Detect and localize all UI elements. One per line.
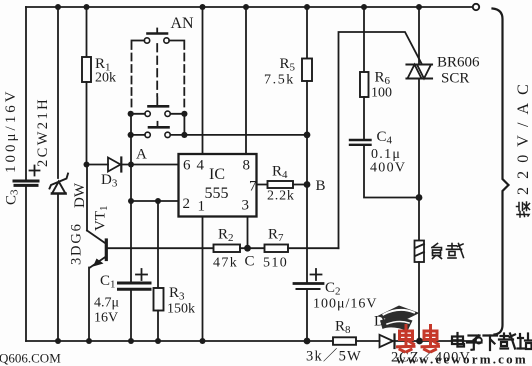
svg-text:R7: R7 [268,227,284,245]
wire R5 top lead [306,7,308,59]
watermark glyph 电 [452,333,464,347]
svg-text:100: 100 [371,86,392,101]
label 4.7u [94,296,119,311]
node dot top rail / R1 branch [84,4,90,10]
svg-text:C4: C4 [377,129,393,147]
svg-text:www.eeworm.com: www.eeworm.com [396,352,528,366]
pin label 1 [198,199,206,215]
wire R6 to C4 [363,97,365,139]
node dot bottom rail / C1 [128,338,134,344]
label 150k [167,302,195,317]
label 100u/16V (rotated) [3,88,19,173]
label SCR [441,71,469,87]
svg-text:BR606: BR606 [437,55,480,71]
node dot top rail / pin4 [200,4,206,10]
label C3 plus sign [30,166,40,176]
pin label 3 [242,198,250,214]
node dot D3 anode junction [84,162,90,168]
label 555 [205,185,229,202]
wire R7 to gate riser [288,247,339,249]
wire R1 top lead [86,7,88,57]
label 47k [213,256,238,271]
label jie 接 (rotated) [517,202,530,217]
label C4 [377,129,393,147]
triac BR606 SCR [407,65,433,79]
node dot pin2 row / R3 branch [155,198,161,204]
watermark text Q606.COM [0,351,61,366]
watermark glyph 子 [467,336,482,350]
svg-text:150k: 150k [167,302,195,317]
transistor VT1 emitter with arrow [90,257,106,268]
wire node A vertical down to C1 [130,165,132,282]
svg-text:C2: C2 [325,280,341,298]
node dot C4 / SCR column [416,194,423,201]
pin label 2 [183,196,191,212]
wire DW branch lower [57,194,59,342]
label BR606 [437,55,480,71]
node C dot [244,245,251,252]
label D [374,314,385,330]
label fuzai (load) glyph 载 [447,244,464,259]
resistor R4 [268,181,294,188]
wire row3 to R5 bottom node [184,134,307,136]
resistor R6 [360,72,369,97]
wire R3 bottom lead [157,311,159,342]
node dot top rail / DW branch [55,4,61,10]
wire switch top leads [132,40,185,42]
svg-text:R3: R3 [169,285,185,303]
label 100 [371,86,392,101]
wire D3 anode [87,164,109,166]
pin label 8 [243,158,251,174]
label 100u/16V (C2) [313,297,378,312]
svg-text:SCR: SCR [441,71,469,87]
node bottom AC terminal (open circle) [476,338,482,344]
op-amp/timer IC 555 box U1 [179,154,257,217]
resistor R8 [333,337,356,345]
label 16V [94,311,118,326]
wire IC pin2 row [131,200,179,202]
node dot bottom rail / DW [55,338,61,344]
wire switch left column [130,114,132,165]
node top AC terminal (open circle) [473,4,479,10]
label C1 plus sign [136,269,147,280]
wire top supply rail [26,6,473,8]
node dot top rail / pin8 [243,4,249,10]
capacitor C4 plates [350,140,371,145]
svg-text:AN: AN [171,15,195,32]
svg-text:4.7μ: 4.7μ [94,296,119,311]
label C2 plus sign [311,269,322,280]
label 7.5k [264,73,295,88]
brace 220V/AC [493,9,509,335]
wire C2 bottom to rail [306,290,308,341]
resistor R3 [154,288,164,311]
diode D3 [108,158,121,172]
label fuzai (load) glyph 负 [432,244,442,259]
label R6 [375,70,391,88]
node dot top rail / R5 [304,4,310,10]
svg-text:B: B [316,178,326,194]
switch AN top contacts [144,38,169,43]
svg-text:VT1: VT1 [93,206,111,232]
node B dot [304,181,311,188]
svg-text:1: 1 [198,199,206,215]
label 2CW21H (rotated) [35,97,51,167]
svg-text:16V: 16V [94,311,118,326]
watermark text eeworm.com (grey) [396,352,528,366]
wire pin1 vertical to bottom rail [202,217,204,342]
pin label 4 [197,158,205,174]
label AN [171,15,195,32]
switch AN top button bar [148,29,168,34]
wire C1 bottom to rail [130,290,132,341]
wire SCR cathode down [418,79,420,241]
svg-text:C3: C3 [4,189,21,205]
svg-text:2CW21H: 2CW21H [35,97,51,167]
svg-text:400V: 400V [370,161,406,176]
watermark bug glyph 虫 #1 (red) [398,326,415,352]
wire R4 to node B [293,184,307,186]
label R7 [268,227,284,245]
svg-text:8: 8 [243,158,251,174]
svg-text:Q606.COM: Q606.COM [0,351,61,366]
svg-text:47k: 47k [213,256,238,271]
label node A [136,147,147,163]
wire R1 bottom lead to node [86,82,88,165]
svg-text:510: 510 [263,256,288,271]
resistor R2 [214,245,241,253]
switch row2 contacts [145,111,170,116]
wire bottom rail left of R8 [26,340,333,342]
load (fuzai) box [415,241,425,263]
label 2.2k [267,189,295,204]
capacitor C2 plates [294,284,323,290]
label 3DG6 (rotated) [69,222,85,265]
transistor VT1 collector wire [87,165,105,244]
node dot bottom rail / emitter [86,338,92,344]
switch row3 button bar [149,122,169,128]
wire R5 bottom lead [306,81,308,135]
svg-text:2.2k: 2.2k [267,189,295,204]
label R1 [95,56,111,74]
label 20k [95,71,116,86]
watermark glyph 载 [499,334,515,349]
switch row2 button bar [149,98,169,107]
wire R3 top lead [157,201,159,288]
wire base row to R2 [106,247,213,249]
label DW (rotated) [72,182,88,208]
svg-text:D3: D3 [101,172,118,190]
wire left rail upper (C3 branch) [25,7,27,179]
capacitor C1 plates [119,283,151,289]
svg-text:100μ/16V: 100μ/16V [3,88,19,173]
svg-text:555: 555 [205,185,229,202]
svg-text:100μ/16V: 100μ/16V [313,297,378,312]
label 400V [370,161,406,176]
wire SCR anode [418,7,420,65]
wire node B column down to C2 [306,135,308,282]
svg-text:R5: R5 [280,56,296,74]
wire load bottom to rail [418,262,420,341]
svg-text:3DG6: 3DG6 [69,222,85,265]
label node B [316,178,326,194]
label R3 [169,285,185,303]
svg-text:220V/AC: 220V/AC [515,76,532,195]
svg-text:IC: IC [209,166,225,183]
svg-text:R4: R4 [272,164,288,182]
label C1 [100,273,116,291]
node dot R5 bottom / row3 wire [304,132,311,139]
label 3k/5W [306,348,362,365]
dashed enclosure left edge [131,42,133,111]
label R5 [280,56,296,74]
label D3 [101,172,118,190]
watermark glyph 下 [484,336,498,351]
label 2CZ/400V [391,349,471,366]
label R2 [218,227,234,245]
zener diode DW [50,174,69,194]
label 510 [263,256,288,271]
resistor R7 [265,245,289,253]
label R4 [272,164,288,182]
label R8 [335,319,351,337]
svg-text:R6: R6 [375,70,391,88]
wire C4 bottom elbow to SCR column [364,146,419,198]
wire pin8 vertical [245,7,247,154]
svg-text:2: 2 [183,196,191,212]
label C3 (rotated) [4,189,21,205]
svg-text:3: 3 [242,198,250,214]
switch row3 contacts [145,132,170,137]
node dot top rail / SCR [416,4,422,10]
pin label 7 [249,179,257,195]
svg-text:4: 4 [197,158,205,174]
watermark graduation cap [378,306,420,332]
label C2 [325,280,341,298]
wire R6 top lead [363,7,365,72]
transistor VT1 base bar [105,240,108,260]
label IC [209,166,225,183]
label 0.1u [371,147,401,162]
svg-text:C1: C1 [100,273,116,291]
svg-text:C: C [245,254,255,270]
wire row3 leads [131,134,185,136]
wire pin4 vertical [202,7,204,154]
dashed enclosure right edge [183,42,185,111]
wire diode to bottom AC terminal [395,340,476,342]
svg-text:7: 7 [249,179,257,195]
svg-text:R2: R2 [218,227,234,245]
wire emitter to bottom rail [88,268,90,342]
wire pin7 to R4 [257,184,268,186]
dashed actuator link [156,44,158,96]
node dots row2 [128,111,188,117]
watermark bug glyph 虫 #2 (red) [422,326,439,352]
node dots row3 [128,132,188,138]
svg-text:6: 6 [183,158,191,174]
label node C [245,254,255,270]
wire left rail lower [25,187,27,341]
node dot top rail / R6 [361,4,367,10]
node dot bottom rail / C2 [304,338,311,345]
resistor R5 [302,59,312,82]
wire row2 leads [131,113,185,115]
svg-text:DW: DW [72,182,88,208]
node dot pin2 row left [128,198,134,204]
wire R8 to diode D [356,340,380,342]
diode D [380,335,395,349]
wire D3 cathode to node A and IC pin6 [121,164,178,166]
svg-text:A: A [136,147,147,163]
node A dot [128,162,134,168]
watermark glyph 站 [518,334,532,350]
wire DW branch upper [57,7,59,178]
svg-text:R8: R8 [335,319,351,337]
svg-text:3k／5W: 3k／5W [306,348,362,365]
node dot bottom rail / load [416,338,423,345]
pin label 6 [183,158,191,174]
svg-text:7.5k: 7.5k [264,73,295,88]
wire switch right column [183,114,185,135]
resistor R1 [82,57,91,82]
label VT1 (rotated) [93,206,111,232]
wire gate riser and gate lead to SCR [339,32,422,248]
wire R2 to node C [240,247,265,249]
node dot bottom rail / pin1 [200,338,206,344]
label 220V/AC (rotated) [515,76,532,195]
capacitor C3 plates [14,181,38,185]
svg-text:20k: 20k [95,71,116,86]
wire pin3 vertical [247,217,249,249]
node dot bottom rail / R3 [155,338,161,344]
